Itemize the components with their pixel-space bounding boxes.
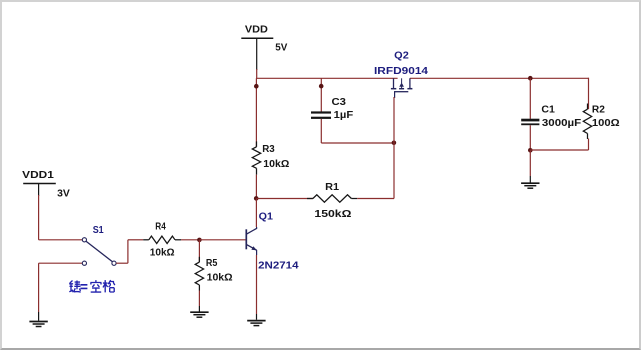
resistor R5 10k bbox=[195, 257, 232, 291]
wire gate node to R1 bbox=[393, 97, 395, 199]
svg-text:10kΩ: 10kΩ bbox=[150, 247, 175, 259]
wire rail to C3 bbox=[320, 78, 322, 111]
svg-text:10kΩ: 10kΩ bbox=[263, 158, 289, 170]
transistor Q2 IRFD9014 p-mosfet bbox=[374, 49, 428, 98]
junction dot node R3/R1/Q1 bbox=[254, 196, 259, 201]
resistor R4 10k bbox=[143, 221, 181, 259]
wire R2 bottom bbox=[588, 139, 590, 151]
svg-text:C1: C1 bbox=[541, 103, 555, 115]
svg-text:VDD: VDD bbox=[245, 23, 268, 35]
svg-text:Q1: Q1 bbox=[259, 210, 273, 222]
wire node to R5 bbox=[198, 240, 200, 262]
wire VDD1 to switch bbox=[38, 195, 40, 240]
wire R4 to base node bbox=[181, 239, 199, 241]
resistor R2 100 ohm bbox=[583, 103, 619, 139]
svg-text:3000µF: 3000µF bbox=[542, 117, 582, 129]
wire rail to C1 bbox=[529, 78, 531, 119]
ground under C1 bbox=[521, 183, 539, 188]
wire C3 to gate node bbox=[321, 142, 394, 144]
junction dot node C1/R2/gnd bbox=[528, 148, 533, 153]
capacitor C1 3000uF bbox=[521, 103, 582, 129]
svg-text:R5: R5 bbox=[206, 257, 218, 269]
svg-text:VDD1: VDD1 bbox=[22, 169, 54, 181]
key label 键 = 空格 bbox=[69, 280, 115, 292]
junction dot node rail/C1 bbox=[528, 76, 533, 81]
wire VDD rail right segment bbox=[410, 77, 589, 79]
power symbol VDD bbox=[241, 23, 287, 70]
wire VDD stem bbox=[256, 69, 258, 78]
svg-text:10kΩ: 10kΩ bbox=[207, 272, 233, 284]
wire R5 to ground bbox=[198, 291, 200, 307]
wire C1 bottom bbox=[529, 125, 531, 150]
svg-text:R3: R3 bbox=[262, 143, 275, 155]
power symbol VDD1 bbox=[22, 169, 70, 200]
svg-text:100Ω: 100Ω bbox=[592, 117, 620, 129]
wire VDD rail left segment bbox=[256, 77, 398, 79]
wire ground branch to switch bbox=[39, 262, 83, 264]
svg-text:3V: 3V bbox=[57, 188, 70, 200]
svg-text:R1: R1 bbox=[325, 181, 339, 193]
svg-text:150kΩ: 150kΩ bbox=[314, 208, 351, 220]
switch S1 bbox=[82, 224, 116, 265]
ground under VDD1 branch bbox=[29, 322, 47, 327]
wire rail to R3 bbox=[255, 78, 257, 147]
wire node to Q1 base bbox=[199, 239, 245, 241]
svg-text:S1: S1 bbox=[93, 224, 104, 236]
wire node to R1 left bbox=[256, 198, 313, 200]
wire emitter to ground bbox=[256, 255, 258, 314]
svg-text:IRFD9014: IRFD9014 bbox=[374, 65, 428, 77]
wire R3 to node bbox=[255, 175, 257, 199]
junction dot node gate/R1 bbox=[392, 141, 397, 146]
svg-text:C3: C3 bbox=[332, 96, 347, 108]
resistor R1 150k bbox=[307, 181, 357, 220]
svg-text:2N2714: 2N2714 bbox=[258, 260, 299, 272]
resistor R3 10k bbox=[252, 141, 289, 174]
transistor Q1 2N2714 npn bbox=[246, 210, 298, 271]
junction dot node VDD/R3 bbox=[254, 84, 259, 89]
ground under Q1 bbox=[247, 321, 265, 326]
wire switch to R4 bbox=[116, 262, 128, 264]
wire C1 node to ground bbox=[529, 150, 531, 176]
svg-text:R4: R4 bbox=[155, 221, 166, 233]
svg-text:R2: R2 bbox=[592, 103, 605, 115]
wire collector bbox=[255, 199, 257, 228]
wire C3 bottom bbox=[320, 119, 322, 143]
wire R1 right bbox=[357, 198, 394, 200]
svg-text:5V: 5V bbox=[275, 41, 287, 53]
svg-text:1µF: 1µF bbox=[334, 109, 354, 121]
junction dot node C3 top bbox=[319, 84, 324, 89]
wire rail corner to R2 bbox=[588, 78, 590, 110]
ground under R5 bbox=[190, 312, 208, 317]
capacitor C3 1uF bbox=[311, 96, 354, 121]
svg-text:Q2: Q2 bbox=[394, 49, 409, 61]
junction dot node R4/R5/base bbox=[197, 238, 202, 243]
